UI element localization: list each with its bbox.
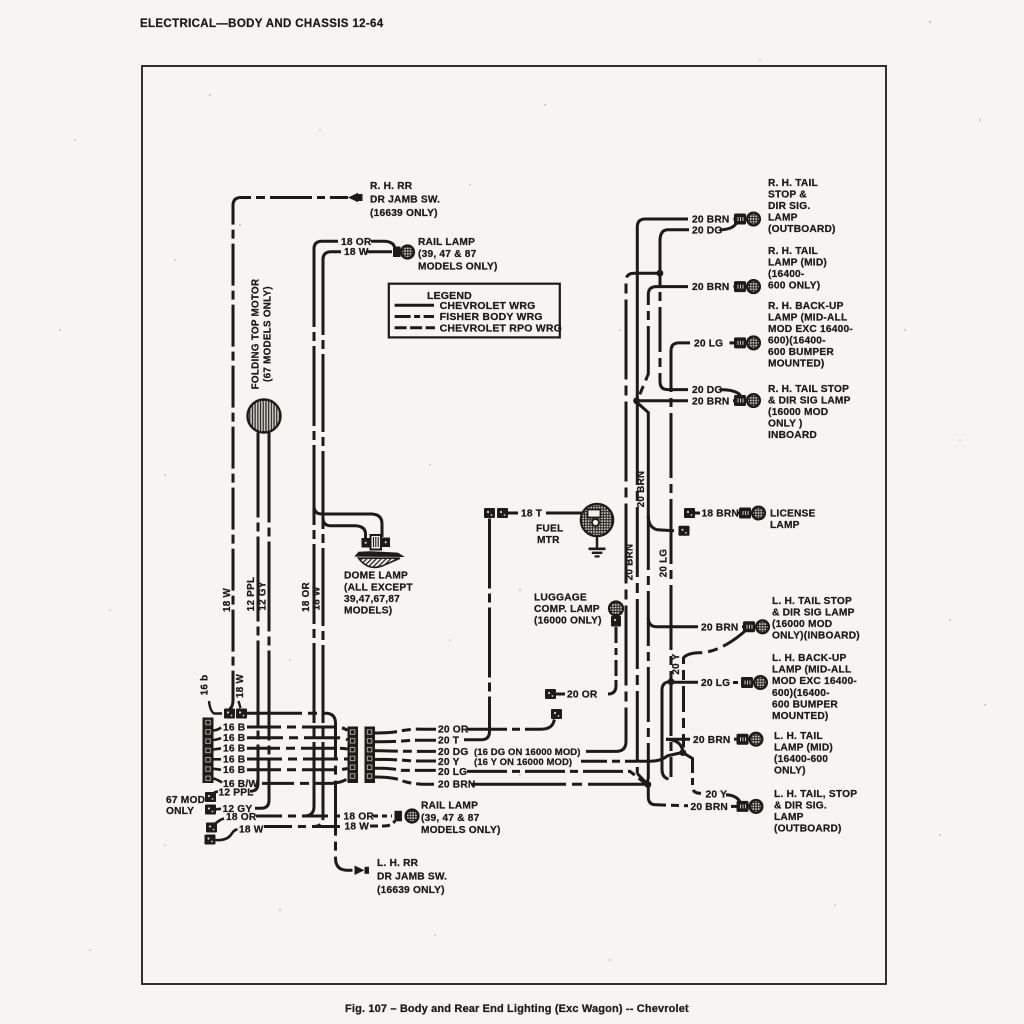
label RAIL LAMP (39,47 &amp; 87 MODELS ONLY) bottom (421, 801, 501, 836)
label RH BACK-UP LAMP (768, 301, 853, 370)
wire 16 B row 5 stub (214, 769, 222, 770)
label RH RR DR JAMB SW (370, 181, 440, 219)
connector block middle 2 (6 terminals) (365, 727, 376, 784)
svg-text:(16400-600: (16400-600 (774, 754, 828, 765)
svg-text:18 W: 18 W (312, 586, 323, 611)
wire stub square to 20 OR label (556, 693, 565, 696)
wire 20 Y curve from lamp6 down (V683) (684, 632, 745, 748)
svg-text:600 BUMPER: 600 BUMPER (768, 347, 834, 358)
label 18 W (rail lamp 1) (344, 247, 369, 258)
svg-text:18 W: 18 W (222, 588, 233, 613)
label LH RR DR JAMB SW (377, 858, 447, 896)
wire 18 OR label to rail lamp 2 (373, 815, 392, 818)
wire 20 BRN from dot B to lamp9 (648, 785, 688, 806)
connector square pigtail 12 PPL (205, 792, 216, 802)
svg-text:20 BRN: 20 BRN (692, 396, 729, 407)
label 20 LG (lamp3) (694, 338, 723, 349)
svg-text:18 W: 18 W (235, 674, 246, 699)
svg-text:20 BRN: 20 BRN (636, 471, 647, 508)
svg-text:67 MOD: 67 MOD (166, 795, 205, 806)
label (16 Y ON 16000 MOD) (474, 757, 572, 768)
svg-text:MOUNTED): MOUNTED) (768, 359, 825, 370)
label 16 B row2 (223, 733, 245, 744)
label LUGGAGE COMP LAMP (534, 593, 602, 627)
wire 16 B row 2 (247, 738, 348, 740)
wire 20 LG harness diagonal to dot B (467, 771, 646, 783)
label 16 B row4 (223, 755, 245, 766)
svg-text:20 Y: 20 Y (671, 653, 682, 674)
wire 18 OR dome feed (V312) (304, 247, 314, 816)
svg-text:18 OR: 18 OR (301, 582, 312, 612)
wire 20 DG label curve into lamp1 (720, 224, 736, 230)
svg-text:20 BRN: 20 BRN (693, 735, 730, 746)
svg-text:16 B: 16 B (223, 723, 245, 734)
wire 18 W stub to square (239, 701, 241, 708)
svg-text:20 BRN: 20 BRN (701, 622, 738, 633)
label 20 Y rotated (V683) (671, 653, 682, 674)
label 18 W rotated (line V233) (222, 588, 233, 613)
wire 16 B row 3 (247, 747, 348, 751)
wire 16 B row 4 (247, 758, 348, 761)
wire stub license square to 18 BRN (695, 512, 700, 515)
label 20 BRN (lamp4) (692, 396, 729, 407)
svg-text:ONLY: ONLY (166, 806, 194, 817)
label 20 LG (lamp7) (701, 678, 730, 689)
junction dot 20 BRN (dot B) (645, 781, 652, 788)
fuel meter gauge (581, 504, 613, 536)
label 12 GY (223, 804, 253, 815)
svg-text:16 B: 16 B (223, 755, 245, 766)
svg-text:LAMP (MID): LAMP (MID) (768, 257, 827, 268)
svg-text:ONLY)(INBOARD): ONLY)(INBOARD) (772, 630, 860, 641)
label 20 BRN rotated (V648) (636, 471, 647, 508)
rail lamp 1 symbol (393, 246, 414, 259)
wire stub 12 GY (216, 807, 221, 810)
wire 18 W top to rail lamp 1 (323, 252, 341, 260)
connector block middle 1 (6 terminals) (348, 727, 359, 784)
label FOLDING TOP MOTOR (67 MODELS ONLY) rotated (251, 279, 274, 390)
svg-text:L. H. TAIL STOP: L. H. TAIL STOP (772, 596, 852, 607)
junction dot 20 LG (668, 678, 675, 685)
label 16 b rotated (200, 675, 211, 696)
label 20 Y harness (438, 757, 460, 768)
wire 20 Y label curve into lamp9 (726, 795, 741, 804)
wire 20 DG label into lamp4 (720, 390, 741, 396)
wire 20 Y feed to dot A (581, 753, 680, 761)
svg-text:LAMP (MID-ALL: LAMP (MID-ALL (772, 665, 851, 676)
svg-text:20 BRN: 20 BRN (692, 215, 729, 226)
svg-text:20 BRN: 20 BRN (625, 544, 636, 581)
svg-text:20 Y: 20 Y (706, 790, 728, 801)
wire branch from 20 LG dot down (662, 682, 669, 779)
label 20 DG (lamp1) (692, 225, 722, 236)
label 20 T harness (438, 735, 460, 746)
wire 20 DG (B) top row to lamp1 (660, 230, 689, 241)
tail stop dir sig lamp RH outboard (lamp1) (734, 213, 760, 226)
svg-text:20 DG: 20 DG (692, 385, 722, 396)
label RH TAIL STOP DIR SIG LAMP OUTBOARD (768, 178, 836, 235)
svg-text:R. H. BACK-UP: R. H. BACK-UP (768, 301, 844, 312)
legend box (389, 284, 562, 338)
tail lamp LH mid (lamp8) (737, 733, 763, 746)
svg-text:LICENSE: LICENSE (770, 509, 816, 520)
svg-text:20 LG: 20 LG (438, 767, 467, 778)
svg-text:16 B: 16 B (223, 744, 245, 755)
svg-text:(16 Y ON 16000 MOD): (16 Y ON 16000 MOD) (474, 757, 572, 768)
svg-text:L. H. RR: L. H. RR (377, 858, 419, 869)
wire 16 B row 4 stub (214, 758, 222, 761)
wire 18 W into rail lamp 1 connector (367, 250, 392, 253)
svg-text:20 BRN: 20 BRN (692, 282, 729, 293)
wire 20 LG row to lamp7 (671, 681, 698, 684)
license lamp (739, 507, 765, 520)
wire 20 OR harness row to square (467, 720, 555, 730)
label LICENSE LAMP (770, 509, 816, 532)
svg-text:(16000 MOD: (16000 MOD (772, 619, 832, 630)
wire stub 18 W (216, 829, 238, 840)
luggage compartment lamp (609, 602, 623, 627)
junction arrow 20 BRN main (633, 397, 648, 517)
svg-text:20 DG: 20 DG (692, 225, 722, 236)
label 18 OR (rail lamp 1) (341, 237, 372, 248)
wire stub 18 OR (216, 819, 225, 824)
header title (140, 18, 384, 30)
wire 20 BRN label into lamp6 (742, 625, 744, 628)
svg-text:600 ONLY): 600 ONLY) (768, 280, 820, 291)
svg-text:LAMP: LAMP (770, 520, 800, 531)
wire dome lamp branch lower (323, 518, 366, 538)
label 18 OR pigtail (226, 812, 257, 823)
svg-text:20 OR: 20 OR (567, 690, 598, 701)
label RH TAIL LAMP MID 16400-600 ONLY (768, 246, 827, 292)
connector block left (7 terminals) (203, 718, 214, 784)
svg-text:CHEVROLET RPO WRG: CHEVROLET RPO WRG (440, 322, 562, 334)
svg-text:20 BRN: 20 BRN (438, 780, 475, 791)
connector square fuel B (497, 508, 508, 518)
svg-text:LAMP: LAMP (774, 812, 804, 823)
label 16 B row3 (223, 744, 245, 755)
svg-text:INBOARD: INBOARD (768, 430, 817, 441)
label 20 BRN harness (438, 780, 475, 791)
svg-text:MOD EXC 16400-: MOD EXC 16400- (768, 324, 853, 335)
wire 20 DG feed (V626 up to top junction) (586, 273, 657, 751)
wire 12 PPL (V258 from motor to pigtail) (250, 433, 258, 792)
wire 16 B/W row 6 (262, 779, 348, 784)
wire 20 BRN lamp8 curve from dot A (666, 739, 683, 751)
svg-text:FOLDING TOP MOTOR: FOLDING TOP MOTOR (251, 279, 262, 390)
label 20 BRN (lamp9) (691, 802, 728, 813)
label DOME LAMP (344, 571, 413, 617)
label 20 LG harness (438, 767, 467, 778)
wire fan 20 DG (375, 749, 436, 753)
wire 20 BRN main (A) lamp1 row and down to junction (637, 219, 737, 415)
label 20 BRN (lamp1) (692, 215, 729, 226)
label 18 W rotated (V323) (312, 586, 323, 611)
wire 18 W label curve to rail lamp 2 (370, 821, 395, 827)
svg-text:DIR SIG.: DIR SIG. (768, 201, 810, 212)
svg-text:& DIR SIG LAMP: & DIR SIG LAMP (768, 396, 851, 407)
tail stop dir sig lamp LH inboard (lamp6) (743, 620, 769, 633)
wire stub 12 PPL (214, 792, 219, 794)
svg-text:16 B: 16 B (223, 765, 245, 776)
label 18 BRN (license) (702, 509, 739, 520)
svg-text:L. H. BACK-UP: L. H. BACK-UP (772, 653, 846, 664)
svg-text:RAIL LAMP: RAIL LAMP (418, 237, 475, 248)
svg-text:MODELS): MODELS) (344, 606, 392, 617)
wire dome lamp branch upper (314, 506, 382, 537)
svg-text:(16400-: (16400- (768, 269, 805, 280)
wire 12 GY (V269 from motor to pigtail) (255, 433, 269, 809)
label FUEL MTR (536, 524, 563, 547)
label 16 B/W row6 (223, 779, 258, 790)
connector square pigtail 18 OR (206, 823, 217, 833)
label 16 B row5 (223, 765, 245, 776)
wire branch 20 BRN row to lamp6 (648, 618, 698, 627)
wire 18 BRN into license lamp (738, 512, 741, 515)
label RAIL LAMP (39,47 &amp; 87 MODELS ONLY) top (418, 237, 498, 272)
svg-text:DR JAMB SW.: DR JAMB SW. (377, 872, 447, 883)
svg-text:L. H. TAIL: L. H. TAIL (774, 731, 823, 742)
svg-text:(16639 ONLY): (16639 ONLY) (377, 885, 445, 896)
label LH BACK-UP LAMP (772, 653, 857, 722)
wire lamp8 row (666, 738, 690, 741)
svg-text:12 GY: 12 GY (258, 581, 269, 610)
svg-text:MOD EXC 16400-: MOD EXC 16400- (772, 676, 857, 687)
wire 20 BRN label into lamp8 (734, 738, 737, 741)
svg-text:18 T: 18 T (521, 509, 543, 520)
svg-text:(OUTBOARD): (OUTBOARD) (774, 823, 842, 834)
wire fan 20 OR (375, 729, 436, 733)
label 12 PPL (219, 787, 254, 798)
connector square luggage upper (545, 689, 556, 699)
svg-text:(16639 ONLY): (16639 ONLY) (370, 208, 438, 219)
wire 20 BRN label into lamp4 (733, 399, 736, 402)
svg-text:FISHER BODY WRG: FISHER BODY WRG (440, 311, 543, 323)
svg-text:16 b: 16 b (200, 675, 211, 696)
wire 20 DG (B) vertical to lamp4 row (660, 241, 688, 390)
label 18 OR rotated (V312) (301, 582, 312, 612)
svg-text:20 LG: 20 LG (659, 549, 670, 578)
label 20 Y (lamp9) (706, 790, 728, 801)
label 20 BRN (lamp2) (692, 282, 729, 293)
ground at fuel meter (589, 536, 606, 556)
label 18 W (rail lamp 2) (345, 822, 370, 833)
connector square license upper (684, 508, 695, 518)
label 20 BRN (lamp6) (701, 622, 738, 633)
connector RH RR door jamb switch (348, 193, 363, 202)
wire 20 BRN label into lamp9 (731, 805, 737, 808)
label 20 BRN (lamp8) (693, 735, 730, 746)
label 20 BRN rotated (A) (625, 544, 636, 581)
svg-text:(OUTBOARD): (OUTBOARD) (768, 224, 836, 235)
label 18 T (521, 509, 543, 520)
svg-text:20 OR: 20 OR (438, 725, 469, 736)
svg-text:MODELS ONLY): MODELS ONLY) (421, 825, 501, 836)
wire 20 LG label into lamp7 (733, 681, 741, 684)
label 20 LG rotated (V671) (659, 549, 670, 578)
label 18 W rotated (row0) (235, 674, 246, 699)
svg-text:Fig. 107 – Body and Rear End L: Fig. 107 – Body and Rear End Lighting (E… (345, 1003, 689, 1015)
svg-text:20 LG: 20 LG (701, 678, 730, 689)
svg-text:600)(16400-: 600)(16400- (772, 688, 830, 699)
backup lamp LH (lamp7) (741, 676, 767, 689)
wire 20 BRN row lamp4 (637, 399, 688, 402)
svg-text:20 T: 20 T (438, 735, 460, 746)
svg-text:RAIL LAMP: RAIL LAMP (421, 801, 478, 812)
label (16 DG ON 16000 MOD) (474, 747, 581, 758)
folding top motor M1 (248, 400, 281, 433)
connector square license lower (679, 526, 690, 536)
wire fan 20 LG (375, 768, 436, 770)
svg-text:600 BUMPER: 600 BUMPER (772, 699, 838, 710)
label 18 OR (rail lamp 2) (344, 811, 375, 822)
tail lamp RH mid (lamp2) (734, 280, 760, 293)
svg-text:R. H. TAIL: R. H. TAIL (768, 178, 818, 189)
svg-text:(16000 MOD: (16000 MOD (768, 407, 828, 418)
svg-text:FUEL: FUEL (536, 524, 563, 535)
svg-text:MOUNTED): MOUNTED) (772, 711, 829, 722)
label LH TAIL LAMP MID (774, 731, 833, 777)
svg-text:L. H. TAIL, STOP: L. H. TAIL, STOP (774, 789, 857, 800)
rail lamp 2 symbol (395, 810, 419, 823)
wire 16 B row 5 (247, 768, 348, 769)
label 20 OR harness (438, 725, 469, 736)
svg-text:16 B: 16 B (223, 733, 245, 744)
wire 20 T / 18 T vertical (V489) (464, 519, 490, 740)
connector square pigtail 18 W (205, 835, 216, 845)
wire 20 OR from luggage lamp (608, 627, 616, 694)
label 12 GY rotated (258, 581, 269, 610)
dome lamp lens (355, 551, 405, 567)
svg-text:18 OR: 18 OR (226, 812, 257, 823)
svg-text:20 BRN: 20 BRN (691, 802, 728, 813)
wire 16 b stub (209, 701, 222, 714)
svg-text:DOME LAMP: DOME LAMP (344, 571, 408, 582)
label 67 MOD ONLY (166, 795, 205, 817)
label 12 PPL rotated (246, 577, 257, 611)
svg-text:600)(16400-: 600)(16400- (768, 336, 826, 347)
connector square fuel A (484, 508, 495, 518)
label LH TAIL STOP DIR SIG OUTBOARD (774, 789, 857, 835)
svg-text:(ALL EXCEPT: (ALL EXCEPT (344, 583, 413, 594)
wire branch to license square (648, 516, 674, 531)
wire 18 T from label into fuel meter (546, 512, 582, 515)
svg-text:39,47,67,87: 39,47,67,87 (344, 594, 400, 605)
svg-text:ONLY): ONLY) (774, 766, 806, 777)
tail stop dir sig lamp LH outboard (lamp9) (737, 800, 763, 813)
svg-text:COMP. LAMP: COMP. LAMP (534, 604, 600, 615)
wire 16 B row 1 stub (214, 728, 222, 731)
svg-text:LAMP (MID): LAMP (MID) (774, 743, 833, 754)
label RH TAIL STOP DIR SIG 16000 INBOARD (768, 384, 851, 441)
junction dot 20 Y (dot A) (679, 749, 686, 756)
wire 16 B row 1 (247, 727, 348, 731)
wire 16 B row 2 stub (214, 738, 222, 740)
svg-text:& DIR SIG.: & DIR SIG. (774, 800, 827, 811)
dome lamp connector (362, 535, 391, 550)
svg-text:12 PPL: 12 PPL (246, 577, 257, 611)
svg-text:ONLY ): ONLY ) (768, 419, 803, 430)
label 18 W pigtail (239, 824, 264, 835)
caption (345, 1003, 689, 1015)
wire 18 W Fisher to RH jamb switch (vertical V233 + top run) (230, 198, 349, 710)
junction dot 20 DG (657, 270, 664, 277)
svg-text:18 OR: 18 OR (341, 237, 372, 248)
wire 18 W row to rail lamp 2 (264, 825, 341, 828)
svg-text:MTR: MTR (537, 535, 560, 546)
svg-text:18 BRN: 18 BRN (702, 509, 739, 520)
connector square pigtail 12 GY (205, 805, 216, 815)
svg-text:DR JAMB SW.: DR JAMB SW. (370, 195, 440, 206)
svg-text:STOP &: STOP & (768, 190, 807, 201)
svg-text:ELECTRICAL—BODY AND CHASSIS 12: ELECTRICAL—BODY AND CHASSIS 12-64 (140, 18, 384, 30)
svg-text:R. H. TAIL STOP: R. H. TAIL STOP (768, 384, 849, 395)
svg-text:(39, 47 & 87: (39, 47 & 87 (421, 813, 480, 824)
wire 20 Y from dot A to lamp9 (683, 753, 702, 794)
connector square luggage lower (551, 709, 562, 719)
connector LH RR door jamb switch (355, 866, 370, 876)
svg-text:18 W: 18 W (239, 824, 264, 835)
label 20 OR (luggage) (567, 690, 598, 701)
wire fan 20 BRN (375, 777, 434, 784)
svg-text:18 W: 18 W (345, 822, 370, 833)
label 16 B row1 (223, 723, 245, 734)
wire 16 B row 3 stub (214, 748, 222, 749)
svg-text:LAMP: LAMP (768, 213, 798, 224)
svg-text:R. H. TAIL: R. H. TAIL (768, 246, 818, 257)
wire 20 BRN harness row to dot B (471, 783, 646, 786)
backup lamp RH (lamp3) (734, 337, 760, 350)
wire 18 OR into rail lamp 1 connector (371, 241, 395, 248)
label 20 DG harness (438, 747, 468, 758)
svg-text:18 W: 18 W (344, 247, 369, 258)
wire row0 18 W to LH jamb (V335) (247, 713, 353, 870)
svg-text:(16000 ONLY): (16000 ONLY) (534, 616, 602, 627)
svg-text:LUGGAGE: LUGGAGE (534, 593, 587, 604)
wire fan 20 Y (375, 759, 436, 761)
wire 18 T to fuel meter (508, 512, 518, 515)
svg-text:(39, 47 & 87: (39, 47 & 87 (418, 249, 477, 260)
wire 18 OR top to rail lamp 1 (314, 241, 338, 249)
connector square top 2 (236, 709, 247, 719)
border frame (142, 66, 886, 984)
wire 20 BRN license branch (V648 segment) (647, 515, 648, 783)
wire 20 LG lamp3 row and vertical V671 (671, 343, 737, 777)
svg-text:MODELS ONLY): MODELS ONLY) (418, 261, 498, 272)
wire 20 BRN (C) lamp2 row down to junction diagonal (639, 287, 738, 398)
svg-text:CHEVROLET WRG: CHEVROLET WRG (440, 300, 536, 312)
wire 20 BRN main lower (A to dot B) (637, 415, 647, 784)
svg-text:20 LG: 20 LG (694, 338, 723, 349)
tail stop dir sig lamp RH inboard (lamp4) (734, 394, 760, 407)
label LH TAIL STOP DIR SIG INBOARD (772, 596, 860, 642)
label 20 DG (lamp4) (692, 385, 722, 396)
wire 18 OR row to rail lamp 2 (256, 815, 340, 818)
connector square top 1 (224, 709, 235, 719)
svg-text:(67 MODELS ONLY): (67 MODELS ONLY) (263, 286, 274, 382)
wire fan 20 T (375, 740, 436, 742)
svg-text:R. H. RR: R. H. RR (370, 181, 413, 192)
wire 16 B/W row 6 stub (214, 778, 223, 782)
svg-text:& DIR SIG LAMP: & DIR SIG LAMP (772, 607, 855, 618)
svg-text:12 PPL: 12 PPL (219, 787, 254, 798)
svg-text:LAMP (MID-ALL: LAMP (MID-ALL (768, 313, 847, 324)
wire 18 W dome feed (V323) (314, 257, 323, 827)
